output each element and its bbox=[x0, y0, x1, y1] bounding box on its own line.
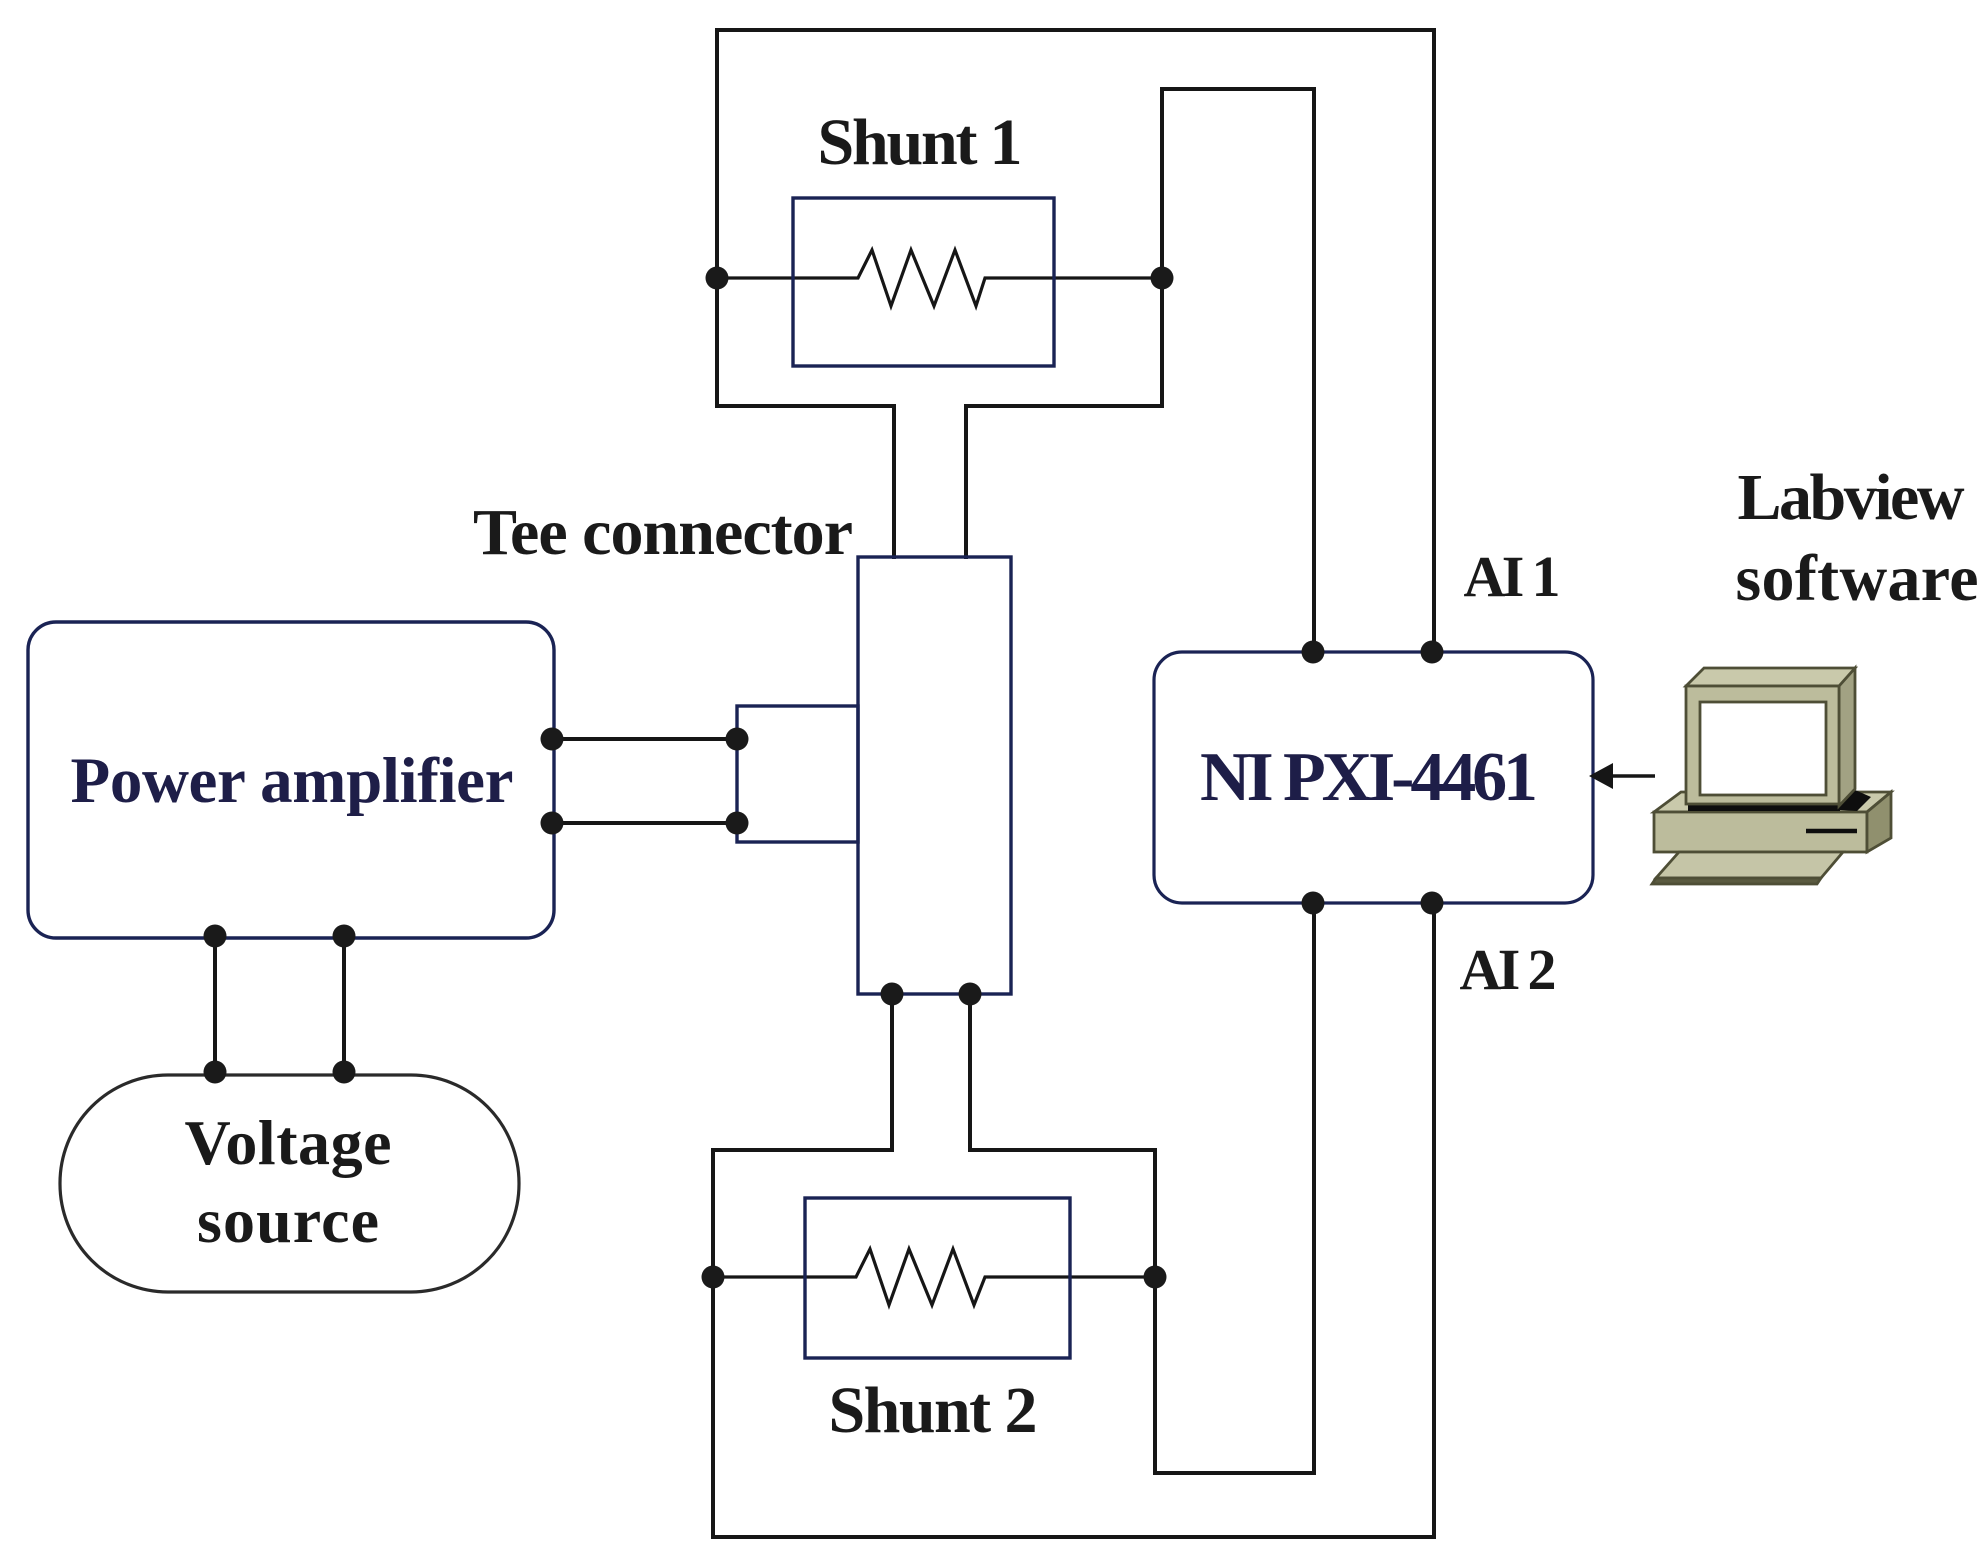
wire: shunt 1 left leg to tee connector bbox=[892, 406, 896, 559]
svg-text:NI PXI-4461: NI PXI-4461 bbox=[1200, 739, 1538, 816]
wire: power amplifier to tee upper bbox=[552, 737, 737, 741]
junction: tee bottom left terminal bbox=[881, 983, 904, 1006]
wire: tee to shunt 2 right leg bbox=[968, 994, 972, 1152]
junction: tee stub lower terminal bbox=[726, 812, 749, 835]
svg-text:Power amplifier: Power amplifier bbox=[71, 745, 514, 817]
junction: voltage source left terminal bbox=[204, 1061, 227, 1084]
svg-text:source: source bbox=[197, 1185, 379, 1256]
junction: NI PXI AI2 right terminal bbox=[1421, 892, 1444, 915]
wire: power amplifier to voltage source right bbox=[342, 938, 346, 1072]
junction: NI PXI AI1 left terminal bbox=[1302, 641, 1325, 664]
wire: shunt 2 sense vertical bbox=[1153, 1148, 1157, 1473]
junction: shunt 2 right node bbox=[1144, 1266, 1167, 1289]
wire: shunt 1 right leg to tee connector bbox=[964, 406, 968, 559]
computer base slot bbox=[1806, 829, 1857, 834]
junction: voltage source right terminal bbox=[333, 1061, 356, 1084]
computer base right side face bbox=[1867, 792, 1891, 852]
wire: shunt 1 loop bottom-left segment bbox=[715, 404, 896, 408]
shunt 2 component box bbox=[805, 1198, 1070, 1358]
wire: shunt 1 sense top jog bbox=[1160, 87, 1314, 91]
junction: tee stub upper terminal bbox=[726, 728, 749, 751]
junction: shunt 1 left node bbox=[706, 267, 729, 290]
resistor R1 (shunt 1) wire and zigzag bbox=[717, 250, 1162, 306]
computer monitor front bezel bbox=[1686, 686, 1839, 804]
computer icon (Labview PC) bbox=[1652, 668, 1891, 884]
voltage source stadium bbox=[60, 1075, 519, 1292]
computer base top face bbox=[1654, 792, 1891, 812]
power amplifier box bbox=[28, 622, 554, 938]
resistor R2 (shunt 2) wire and zigzag bbox=[713, 1249, 1155, 1305]
wire: shunt 2 loop right vertical up to NI PXI AI2 terminal bbox=[1432, 903, 1436, 1539]
junction: tee bottom right terminal bbox=[959, 983, 982, 1006]
computer keyboard top bbox=[1656, 852, 1843, 878]
computer keyboard front edge bbox=[1652, 878, 1821, 884]
tee connector body box bbox=[858, 557, 1011, 994]
wire: power amplifier to voltage source left bbox=[213, 938, 217, 1072]
svg-text:Shunt 1: Shunt 1 bbox=[818, 106, 1023, 179]
computer monitor shadow bbox=[1688, 790, 1871, 811]
junction: shunt 1 right node bbox=[1151, 267, 1174, 290]
wire: shunt 1 loop right vertical down to NI PXI AI1 terminal bbox=[1432, 28, 1436, 652]
wire: AI2 left vertical into NI PXI bbox=[1312, 903, 1316, 1475]
wire: shunt 1 sense vertical bbox=[1160, 89, 1164, 408]
computer screen bbox=[1700, 702, 1826, 795]
wire: shunt 2 loop left vertical bbox=[711, 1148, 715, 1539]
wire: power amplifier to tee lower bbox=[552, 821, 737, 825]
junction: power amplifier upper output bbox=[541, 728, 564, 751]
computer monitor right side face bbox=[1839, 668, 1855, 806]
svg-text:Voltage: Voltage bbox=[185, 1107, 392, 1178]
junction: NI PXI AI1 right terminal bbox=[1421, 641, 1444, 664]
wire: tee to shunt 2 left leg bbox=[890, 994, 894, 1152]
svg-text:AI 1: AI 1 bbox=[1464, 544, 1561, 609]
wire: shunt 2 loop bottom edge bbox=[711, 1535, 1436, 1539]
wire: shunt 1 loop bottom-right segment bbox=[964, 404, 1162, 408]
wire: shunt 2 loop top-right segment bbox=[968, 1148, 1157, 1152]
svg-text:Tee connector: Tee connector bbox=[473, 496, 853, 569]
junction: power amplifier lower output bbox=[541, 812, 564, 835]
junction: power amplifier bottom left bbox=[204, 925, 227, 948]
svg-text:Labview: Labview bbox=[1738, 461, 1965, 534]
wire: AI1 left vertical into NI PXI bbox=[1312, 87, 1316, 652]
wire: shunt 1 loop top edge bbox=[715, 28, 1436, 32]
computer monitor top face bbox=[1686, 668, 1855, 686]
svg-text:Shunt 2: Shunt 2 bbox=[829, 1374, 1038, 1447]
wire: shunt 2 loop top-left segment bbox=[711, 1148, 894, 1152]
junction: NI PXI AI2 left terminal bbox=[1302, 892, 1325, 915]
NI PXI-4461 box bbox=[1154, 652, 1593, 903]
wire: shunt 2 sense bottom jog bbox=[1153, 1471, 1314, 1475]
tee connector side stub box bbox=[737, 706, 858, 842]
computer base front face bbox=[1654, 812, 1867, 852]
svg-text:AI 2: AI 2 bbox=[1460, 937, 1557, 1002]
junction: power amplifier bottom right bbox=[333, 925, 356, 948]
svg-text:software: software bbox=[1736, 542, 1979, 615]
junction: shunt 2 left node bbox=[702, 1266, 725, 1289]
wire: shunt 1 loop left vertical bbox=[715, 28, 719, 408]
shunt 1 component box bbox=[793, 198, 1054, 366]
arrow from computer to NI PXI bbox=[1589, 763, 1655, 789]
